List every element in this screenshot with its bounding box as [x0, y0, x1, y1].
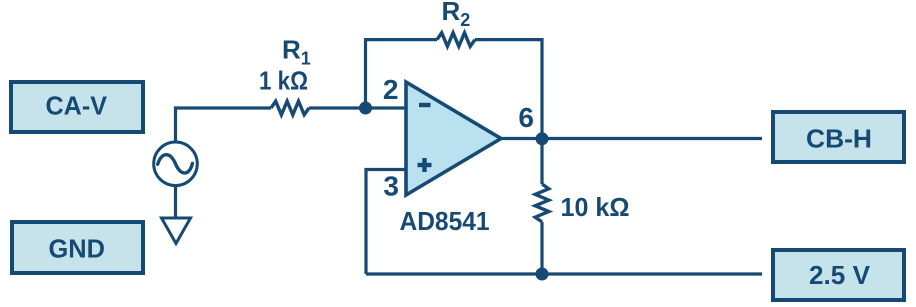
svg-text:CA-V: CA-V	[46, 91, 108, 121]
resistor R2	[437, 33, 475, 47]
supply box 2.5 V	[773, 250, 904, 300]
svg-text:AD8541: AD8541	[400, 206, 490, 236]
wire R3 to bottom node	[540, 222, 543, 274]
svg-text:GND: GND	[49, 234, 106, 264]
wire pin 3 to bottom rail (elbow)	[366, 170, 406, 275]
svg-text:6: 6	[518, 102, 534, 133]
output box CB-H	[773, 112, 904, 162]
ground symbol	[162, 218, 191, 244]
resistor R3 (10 kOhm, vertical)	[535, 184, 549, 222]
probe box GND	[12, 222, 143, 273]
wire R1 to op-amp pin 2	[309, 106, 406, 109]
svg-text:1 kΩ: 1 kΩ	[259, 66, 308, 96]
probe box CA-V	[11, 82, 143, 132]
svg-text:R2: R2	[442, 0, 471, 30]
op-amp non-inverting (plus) marking	[418, 158, 432, 172]
op-amp U1 body	[406, 82, 501, 195]
junction node at inverting input	[359, 102, 372, 115]
bottom rail wire to 2.5 V	[366, 272, 762, 275]
output node junction pin 6	[536, 132, 549, 145]
op-amp inverting (minus) marking	[419, 103, 431, 107]
svg-text:2: 2	[383, 74, 399, 105]
voltage source V1 (sine source)	[154, 142, 198, 186]
svg-text:R1: R1	[282, 35, 311, 69]
svg-text:2.5 V: 2.5 V	[809, 260, 871, 290]
svg-text:10 kΩ: 10 kΩ	[561, 192, 630, 222]
wire source top to R1 (elbow)	[176, 108, 272, 141]
output wire from op-amp to CB-H	[501, 137, 762, 140]
wire feedback: node up and right to R2	[366, 40, 438, 108]
wire output node down to R3	[540, 139, 543, 184]
resistor R1	[271, 101, 309, 115]
wire source bottom to ground	[174, 187, 177, 219]
svg-text:CB-H: CB-H	[806, 124, 872, 154]
wire R2 to output node (elbow down)	[475, 40, 542, 139]
svg-text:3: 3	[383, 170, 399, 201]
bottom node junction	[536, 268, 549, 281]
